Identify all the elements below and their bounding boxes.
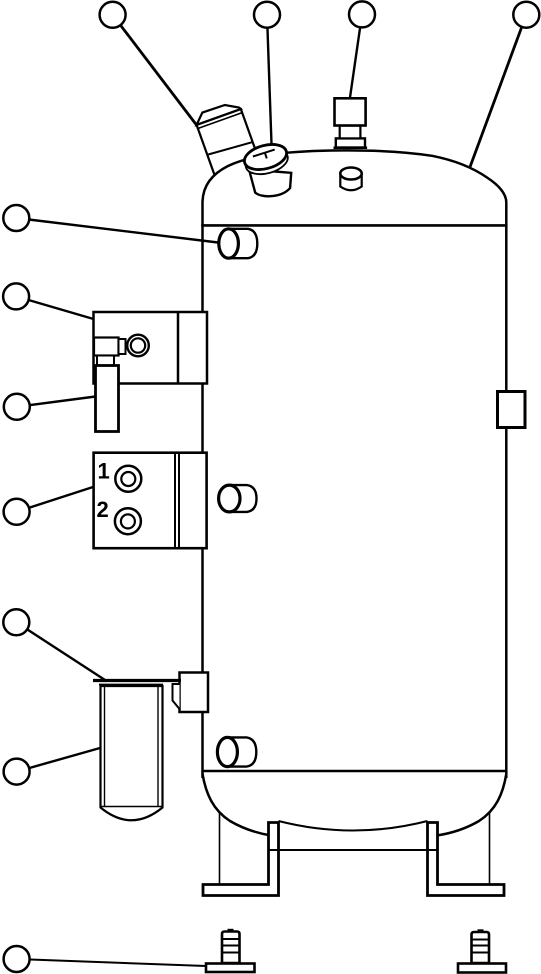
- bottom head far-edge sag curve: [279, 821, 428, 831]
- filter bowl inner left line: [104, 686, 106, 807]
- small cap plug body on dome: [340, 174, 361, 191]
- elbow body: [94, 338, 119, 356]
- leader line 2: [267, 15, 272, 144]
- pressure gauge needle: [253, 150, 275, 157]
- leader line 6: [16, 296, 93, 319]
- left anchor bolt pad: [206, 964, 255, 973]
- callout balloon 4: [513, 2, 539, 28]
- filter mount wedge: [173, 684, 180, 709]
- filter bowl rim: [99, 684, 163, 686]
- pressure gauge face: [242, 140, 290, 174]
- right anchor bolt pad: [458, 964, 506, 973]
- left anchor bolt top notch: [228, 929, 234, 931]
- filter bowl bottom line: [101, 806, 163, 808]
- leader line 5: [16, 218, 218, 243]
- leader line 1: [113, 15, 197, 125]
- right anchor bolt threads: [472, 939, 490, 941]
- bottom port nipple body: [227, 737, 256, 766]
- filter bowl inner right line: [157, 686, 159, 807]
- elbow connector: [119, 339, 126, 354]
- callout balloon 6: [3, 283, 29, 309]
- right anchor bolt stem: [472, 932, 490, 963]
- callout balloon 9: [3, 609, 29, 635]
- top fitting flange: [336, 138, 365, 147]
- side port nipple body: [229, 485, 256, 512]
- rear right leg: [489, 812, 491, 884]
- filter flange: [93, 679, 181, 682]
- tank dome (top head, white fill covers valve bottom): [203, 150, 507, 225]
- outlet block divider a: [174, 453, 176, 549]
- svg-text:2: 2: [97, 497, 109, 522]
- front left leg bracket with foot plate: [203, 823, 279, 896]
- left anchor bolt threads: [222, 938, 240, 940]
- bottom port nipple rim: [217, 737, 237, 766]
- leader line 9: [16, 622, 105, 680]
- filter bowl: [101, 686, 163, 820]
- front right leg bracket with foot plate: [428, 823, 505, 896]
- top fitting neck: [340, 126, 361, 139]
- safety valve (tilted cylinder on dome, behind dome fill): [192, 100, 259, 175]
- leader line 4: [470, 15, 526, 167]
- valve neck under elbow: [97, 356, 114, 366]
- bottom head left curve: [203, 774, 272, 836]
- pressure gauge bezel rim: [243, 145, 291, 179]
- regulator block divider: [177, 312, 180, 384]
- port 2 inner ring: [121, 514, 135, 528]
- drain handle: [96, 366, 119, 432]
- callout balloon 10: [4, 759, 30, 785]
- leader line 7: [17, 397, 96, 407]
- leader line 8: [17, 487, 93, 512]
- leader line 10: [17, 748, 100, 772]
- tank right edge lower stub: [505, 771, 508, 778]
- callout balloon 3: [349, 1, 375, 27]
- top fitting square head: [335, 98, 366, 125]
- pressure gauge body: [249, 170, 291, 197]
- bottom head right curve: [437, 774, 506, 836]
- top port nipple rim: [219, 229, 239, 258]
- right anchor bolt top notch: [478, 929, 484, 931]
- callout balloon 5: [3, 205, 29, 231]
- svg-text:1: 1: [98, 459, 110, 484]
- rear foot crossbar: [269, 849, 437, 851]
- small cap plug top ellipse: [340, 168, 361, 180]
- top port nipple body: [229, 229, 258, 258]
- rear left leg: [219, 812, 221, 884]
- port 2 outer ring: [115, 508, 141, 534]
- port 1 outer ring: [115, 466, 141, 492]
- fitting inner ring: [131, 338, 145, 352]
- callout balloon 1: [100, 2, 126, 28]
- tank left edge lower stub: [201, 771, 204, 778]
- side port nipple rim: [219, 485, 240, 512]
- right side fitting: [498, 392, 526, 428]
- port 1 inner ring: [121, 472, 135, 486]
- leader line 3: [350, 14, 362, 97]
- callout balloon 8: [4, 499, 30, 525]
- leader line 11: [17, 959, 206, 966]
- callout balloon 2: [254, 2, 280, 28]
- tank shell body: [203, 226, 507, 772]
- callout balloon 11: [4, 946, 30, 972]
- left anchor bolt stem: [222, 932, 240, 964]
- fitting outer ring: [127, 335, 149, 357]
- outlet block divider b: [178, 453, 180, 549]
- regulator block B1: [94, 312, 208, 384]
- filter mount block: [180, 673, 209, 713]
- top fitting flange base: [334, 147, 368, 150]
- outlet block B2: [94, 453, 207, 549]
- callout balloon 7: [4, 394, 30, 420]
